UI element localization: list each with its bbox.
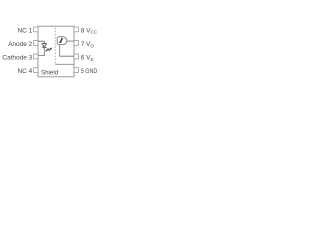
wire detector to pin6 VE — [60, 45, 74, 57]
svg-text:5 GND: 5 GND — [81, 68, 98, 75]
svg-text:8 VCC: 8 VCC — [81, 27, 98, 34]
pin 6 square — [74, 54, 78, 59]
pin 3 square — [34, 54, 38, 59]
wire detector to pin7 VO — [67, 40, 74, 42]
wire anode pin2 to LED — [38, 41, 44, 43]
svg-text:6 VE: 6 VE — [81, 55, 94, 62]
svg-text:Anode 2: Anode 2 — [8, 41, 33, 48]
shield bottom line — [55, 63, 74, 65]
schmitt hysteresis glyph — [59, 39, 63, 43]
pin 1 square — [34, 27, 38, 32]
pin 5 square — [74, 68, 78, 73]
wire LED cathode to pin3 — [38, 48, 44, 56]
shield dashed line — [54, 28, 56, 64]
svg-text:7 VO: 7 VO — [81, 41, 95, 48]
detector amplifier U2 — [57, 37, 67, 45]
pin 2 square — [34, 41, 38, 46]
LED D1 triangle — [42, 44, 46, 47]
light emission arrow 2 — [49, 48, 52, 51]
svg-text:Cathode 3: Cathode 3 — [2, 55, 32, 62]
svg-text:NC 4: NC 4 — [17, 68, 32, 75]
svg-text:Shield: Shield — [41, 70, 59, 77]
pin 7 square — [74, 41, 78, 46]
pin 4 square — [34, 68, 38, 73]
light emission arrow 1 — [46, 48, 49, 51]
pin 8 square — [74, 27, 78, 32]
LED cathode bar — [42, 46, 46, 48]
svg-text:NC 1: NC 1 — [17, 27, 32, 34]
IC package body U1 — [38, 26, 74, 77]
